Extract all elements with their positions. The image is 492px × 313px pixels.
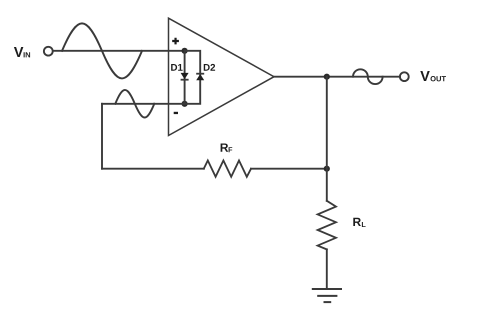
ground	[312, 289, 342, 302]
node VIN label	[14, 47, 30, 57]
wire left vertical (feedback down-leg)	[101, 104, 103, 169]
label D2	[204, 64, 215, 71]
input sine waveform symbol	[62, 23, 142, 78]
output sine waveform symbol	[353, 69, 383, 84]
op-amp + input label	[172, 38, 179, 45]
diode D1 (pointing down)	[181, 73, 189, 80]
wire RF right segment	[251, 168, 327, 170]
node VOUT label	[420, 71, 446, 81]
resistor RF (zigzag)	[204, 161, 251, 177]
node D (junction dot on output)	[324, 74, 330, 80]
node B (junction dot, - input)	[182, 101, 188, 107]
wire RF left segment	[102, 168, 204, 170]
diode D2 (pointing up)	[196, 74, 204, 81]
resistor RL (vertical zigzag)	[318, 201, 336, 250]
node A (junction dot, + input)	[182, 48, 188, 54]
node C (junction dot, RF / RL / output)	[324, 166, 330, 172]
wire VIN to op-amp + input	[53, 50, 185, 52]
terminal VOUT (open circle)	[400, 72, 409, 81]
label RF	[221, 143, 233, 152]
terminal VIN (open circle)	[44, 47, 53, 56]
feedback sine waveform symbol	[115, 90, 154, 118]
op-amp U1	[169, 18, 275, 135]
wire op-amp output	[274, 76, 400, 78]
wire output down to RF/RL	[326, 77, 328, 201]
label RL	[353, 218, 365, 227]
op-amp - input label	[174, 112, 178, 114]
wire D1 branch (vertical between inputs)	[184, 51, 186, 104]
wire feedback to - input	[102, 103, 185, 105]
label D1	[171, 64, 182, 71]
wire RL to ground	[326, 249, 328, 288]
wire D2 branch (top, right vertical, bottom)	[185, 51, 201, 104]
